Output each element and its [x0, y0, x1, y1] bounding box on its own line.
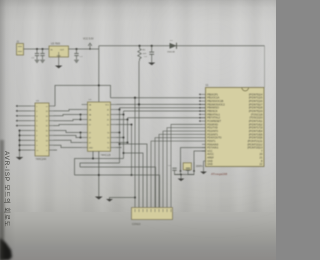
- wire CON10 pin1 long vertical: [134, 98, 136, 208]
- wire U5 GND down: [58, 57, 60, 66]
- regulator U5 7805: [49, 43, 69, 58]
- ground below U5: [55, 66, 62, 69]
- wire R1 bottom long vertical to CON10 pin2: [138, 61, 140, 208]
- MCU U1 ATmega168: [206, 85, 265, 167]
- wire crystal cap common to ground: [175, 174, 195, 179]
- node rail junction C4: [151, 45, 153, 47]
- node mesh junctions: [80, 114, 82, 139]
- svg-text:Y3: Y3: [107, 138, 109, 140]
- wire U3 left input stubs: [16, 105, 31, 127]
- buffer IC U3 74HC244: [31, 101, 54, 161]
- capacitor C5: [168, 165, 181, 175]
- svg-text:74HC244: 74HC244: [36, 158, 47, 161]
- svg-text:3: 3: [36, 116, 37, 118]
- wire VCC loop above U3 and U4: [55, 85, 111, 106]
- wire routing loops below U4: [75, 144, 160, 208]
- wire MCU GND stub: [204, 161, 206, 172]
- wire mesh U3 to U4: [54, 106, 82, 150]
- svg-text:GND: GND: [89, 148, 94, 150]
- wire J1 to U5 input: [24, 48, 50, 50]
- capacitor C2: [40, 49, 45, 62]
- svg-text:10: 10: [36, 150, 38, 152]
- svg-text:VCC 5.0V: VCC 5.0V: [83, 38, 94, 41]
- wire U4 center vertical to ground: [98, 151, 100, 196]
- capacitor C4 0.1uF: [144, 46, 154, 63]
- node power-in junction: [36, 48, 44, 50]
- svg-text:5: 5: [36, 126, 37, 128]
- wire U5 output to VCC rail: [69, 48, 99, 50]
- svg-text:2: 2: [36, 111, 37, 113]
- svg-text:13: 13: [46, 140, 48, 142]
- label ATmega168: [211, 172, 227, 176]
- svg-text:1: 1: [36, 106, 37, 108]
- capacitor C3: [74, 49, 83, 62]
- svg-text:7: 7: [36, 135, 37, 137]
- node rail junction R1: [138, 45, 140, 47]
- wire nets to MCU left pins: [111, 98, 208, 118]
- svg-text:19: 19: [46, 111, 48, 113]
- wire staircase bus MCU to CON10: [151, 124, 202, 207]
- resistor R1 10K: [138, 46, 147, 61]
- svg-text:16MHz: 16MHz: [196, 166, 204, 168]
- wire VCC rail corner down to lower circuit: [98, 46, 100, 102]
- wire upper VCC rail to right side: [99, 46, 265, 88]
- svg-text:17: 17: [46, 121, 48, 123]
- svg-text:8: 8: [36, 140, 37, 142]
- node loop junctions: [92, 158, 94, 160]
- svg-text:ATmega168: ATmega168: [211, 172, 227, 176]
- ground below crystal caps: [178, 179, 185, 182]
- node loop-VCC crossing: [98, 84, 100, 86]
- ground below C4: [148, 63, 155, 66]
- connector J2 CON10: [132, 208, 173, 227]
- svg-text:9: 9: [36, 145, 37, 147]
- node U4 right junctions: [119, 109, 133, 177]
- svg-text:Y4: Y4: [107, 133, 109, 135]
- wire U3 left bus to ground: [19, 130, 31, 158]
- diode D1 1N4148: [167, 40, 177, 53]
- caption AVR-ISP circuit title: [3, 151, 12, 227]
- svg-text:Y1: Y1: [107, 148, 109, 150]
- ground at CON10 pin1: [106, 199, 113, 202]
- node output junction: [76, 48, 78, 50]
- svg-text:1N4148: 1N4148: [167, 51, 175, 53]
- wire CON10 pin1 to ground: [110, 198, 136, 200]
- capacitor C6: [186, 168, 194, 174]
- svg-text:15: 15: [46, 131, 48, 133]
- svg-text:20: 20: [46, 106, 48, 108]
- svg-text:18: 18: [46, 116, 48, 118]
- svg-text:11: 11: [46, 150, 48, 152]
- svg-text:U5 7805: U5 7805: [51, 43, 61, 46]
- capacitor C1: [32, 49, 40, 62]
- crystal Y1 16MHz: [180, 162, 204, 172]
- svg-text:6: 6: [36, 131, 37, 133]
- ground below MCU: [200, 172, 207, 175]
- svg-text:12: 12: [46, 145, 48, 147]
- svg-text:GND: GND: [207, 163, 213, 166]
- wire MCU left pin stubs with arrows: [199, 93, 206, 151]
- wire crystal nets from MCU: [181, 148, 206, 162]
- wire U4 right bus verticals: [117, 108, 132, 175]
- node net crossings: [134, 97, 140, 106]
- connector J1 (power input): [17, 40, 24, 55]
- svg-text:Y2: Y2: [107, 143, 109, 145]
- svg-text:VCC: VCC: [105, 105, 110, 107]
- ground below U3 bus: [16, 157, 23, 160]
- svg-text:74HC125: 74HC125: [101, 154, 112, 157]
- buffer IC U4 74HC125: [82, 99, 117, 157]
- ground below loops: [95, 197, 103, 200]
- svg-text:10K: 10K: [143, 53, 148, 55]
- power flag VCC: [83, 38, 94, 50]
- svg-text:4: 4: [36, 121, 37, 123]
- svg-text:14: 14: [46, 135, 48, 137]
- svg-text:16: 16: [46, 126, 48, 128]
- svg-text:CON10: CON10: [132, 223, 141, 226]
